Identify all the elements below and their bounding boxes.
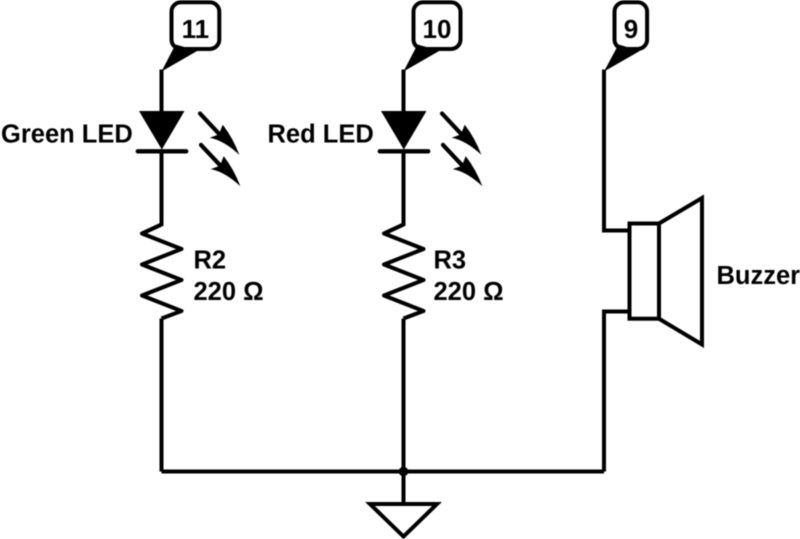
svg-text:Green LED: Green LED bbox=[1, 120, 133, 148]
svg-text:Buzzer: Buzzer bbox=[717, 262, 800, 290]
svg-text:220 Ω: 220 Ω bbox=[194, 278, 264, 306]
junction dot bbox=[399, 467, 409, 477]
pin 10 wedge bbox=[404, 45, 440, 72]
buzzer driver rectangle bbox=[630, 224, 660, 319]
buzzer bottom stub and wire to rail bbox=[604, 312, 630, 472]
LED red cathode bar bbox=[380, 149, 428, 153]
wire junction to ground bbox=[402, 472, 406, 505]
wire R3 to rail bbox=[402, 319, 406, 472]
svg-text:10: 10 bbox=[423, 14, 452, 44]
wire pin9 down to buzzer top stub bbox=[604, 70, 630, 231]
LED red arrow 2 bbox=[443, 145, 482, 186]
wire pin10 to red LED bbox=[402, 70, 406, 116]
LED green triangle bbox=[139, 111, 185, 150]
wire pin11 to green LED bbox=[160, 70, 164, 116]
pin 9 wedge bbox=[604, 45, 640, 72]
LED red triangle bbox=[381, 111, 427, 150]
resistor R3 zigzag bbox=[384, 225, 424, 319]
wire green LED to R2 bbox=[160, 150, 164, 226]
LED green cathode bar bbox=[138, 149, 186, 153]
pin label 10 box bbox=[414, 2, 461, 49]
svg-text:220 Ω: 220 Ω bbox=[434, 278, 504, 306]
wire R2 to rail bbox=[160, 319, 164, 472]
pin 11 wedge bbox=[162, 45, 198, 72]
svg-text:11: 11 bbox=[182, 14, 210, 44]
pin label 11 box bbox=[172, 2, 220, 49]
svg-text:Red LED: Red LED bbox=[268, 120, 374, 148]
LED red arrow 1 bbox=[442, 114, 481, 155]
wire red LED to R3 bbox=[402, 150, 406, 226]
ground symbol bbox=[370, 504, 437, 537]
svg-text:R3: R3 bbox=[434, 246, 467, 274]
svg-text:R2: R2 bbox=[194, 246, 227, 274]
ground rail wire bbox=[162, 470, 605, 474]
resistor R2 zigzag bbox=[142, 225, 182, 319]
pin label 9 box bbox=[615, 2, 648, 49]
svg-text:9: 9 bbox=[624, 14, 638, 44]
buzzer horn bbox=[659, 198, 702, 345]
LED green arrow 2 bbox=[201, 145, 240, 186]
LED green arrow 1 bbox=[200, 114, 239, 155]
